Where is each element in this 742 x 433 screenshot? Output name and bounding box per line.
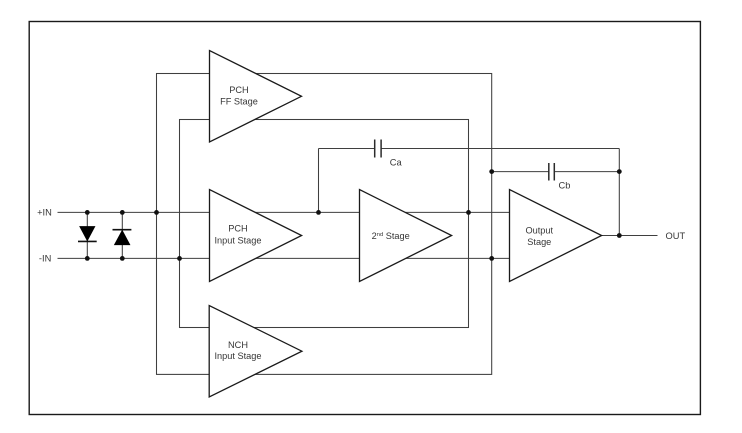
wire: diode D1 branch between +IN and -IN [86,212,88,258]
diode D1 (anode on +IN, cathode bar toward -IN) [80,227,95,241]
junction dot Cb left/outer loop [489,169,494,174]
junction dot -IN/D1 [85,256,90,261]
wire: Ca left lead [319,148,375,150]
wire: Cb right lead [554,171,619,173]
op-amp triangle: NCH Input Stage [209,306,302,398]
junction dot OUT/feedback vertical [617,233,622,238]
svg-text:PCH: PCH [228,224,247,234]
capacitor Ca plates [374,140,376,158]
op-amp triangle: PCH Input Stage [210,190,302,282]
wire: Cb left lead [492,171,549,173]
svg-text:Input Stage: Input Stage [215,235,262,245]
wire: inner loop rectangle (net around input stages, x180..469, y120..327.5) [180,120,469,328]
op-amp triangle: 2nd Stage [360,190,452,282]
junction dot Cb right/feedback vertical [617,169,622,174]
svg-text:Stage: Stage [527,237,551,247]
svg-text:FF Stage: FF Stage [220,97,258,107]
junction dot +IN/outer loop left [154,210,159,215]
svg-text:PCH: PCH [229,85,248,95]
wire: OUT output line [602,235,658,237]
svg-text:-IN: -IN [39,253,51,263]
junction dot +IN/inner loop right [466,210,471,215]
junction dot -IN/outer loop right [489,256,494,261]
junction dot -IN/inner loop left [177,256,182,261]
svg-text:Ca: Ca [390,157,403,167]
wire: Ca tap vertical down to +IN node [318,149,320,213]
wire: -IN input line [58,257,510,259]
svg-text:OUT: OUT [666,231,686,241]
svg-text:NCH: NCH [228,340,248,350]
wire: +IN input line [58,211,510,213]
svg-text:Output: Output [526,226,554,236]
wire: outer feedback loop rectangle (net around FF stage, x156.5..492, y73.5..374) [157,74,492,375]
junction dot -IN/D2 [120,256,125,261]
svg-text:Input Stage: Input Stage [215,351,262,361]
capacitor Cb plates [548,163,550,181]
wire: vertical output feedback line at x619 [618,149,620,236]
op-amp triangle: PCH FF Stage [210,51,302,143]
op-amp triangle: Output Stage [510,190,602,282]
diode D2 (anode on -IN, cathode bar toward +IN) [115,231,130,245]
junction dot +IN/Ca tap [316,210,321,215]
wire: diode D2 branch between +IN and -IN [121,212,123,258]
junction dot +IN/D1 [85,210,90,215]
svg-text:+IN: +IN [37,207,52,217]
svg-text:Cb: Cb [559,181,571,191]
wire: Ca right lead to output node [381,148,619,150]
junction dot +IN/D2 [120,210,125,215]
